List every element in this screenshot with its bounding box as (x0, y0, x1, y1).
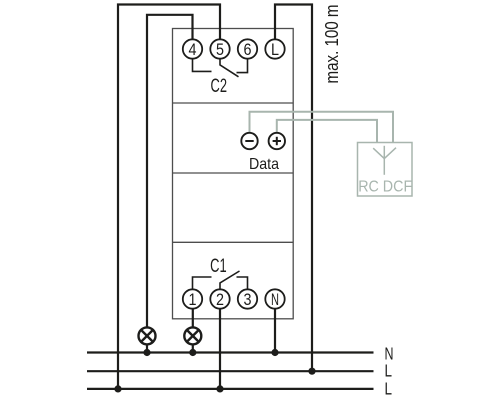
lamp L1 (circle with X) (139, 327, 156, 352)
svg-text:N: N (271, 290, 279, 309)
divider between empty section and C1 section (173, 241, 294, 243)
svg-text:C2: C2 (211, 76, 228, 97)
Data terminal minus (241, 133, 257, 149)
wire terminal N to N line (274, 309, 276, 353)
svg-text:C1: C1 (210, 256, 227, 277)
device outline box (173, 29, 294, 319)
svg-text:RC DCF: RC DCF (358, 179, 412, 196)
wire terminal 2 to bottom L line (219, 309, 221, 389)
svg-text:6: 6 (244, 40, 252, 59)
switch C1 blade from 2 (220, 271, 240, 289)
svg-text:4: 4 (189, 40, 197, 59)
svg-text:L: L (385, 378, 393, 398)
switch C2 contact from 6 (237, 59, 248, 73)
RC DCF receiver box (358, 143, 413, 197)
terminal N (265, 289, 284, 308)
junction dot lamp2/N (189, 349, 196, 356)
wire from terminal 5 to bottom L line (118, 5, 220, 389)
terminal 1 (183, 289, 202, 308)
switch C2 blade from 5 (220, 59, 239, 77)
junction dot lamp1/N (143, 349, 150, 356)
wire terminal 1 to lamp 2 (192, 309, 194, 327)
wire from terminal 4 to lamp 1 (147, 15, 193, 327)
junction dot terminal N/N line (271, 349, 278, 356)
svg-text:Data: Data (249, 156, 279, 173)
svg-text:2: 2 (216, 290, 224, 309)
gray wire from Data minus to RC DCF (250, 112, 394, 143)
switch C2 contact from 4 (193, 59, 212, 72)
switch C1 contact from 3 (237, 277, 248, 289)
junction dot wire5/bottom L line (114, 385, 121, 392)
terminal 3 (238, 289, 257, 308)
antenna symbol (373, 146, 396, 175)
divider between Data section and empty section (173, 172, 294, 174)
svg-text:5: 5 (216, 40, 224, 59)
terminal 5 (210, 39, 229, 58)
junction dot L wire/middle L line (308, 368, 315, 375)
mains line N (87, 351, 374, 353)
terminal 4 (183, 39, 202, 58)
wire from terminal L to middle L line (275, 5, 312, 372)
svg-text:3: 3 (244, 290, 252, 309)
terminal L (265, 39, 284, 58)
terminal 2 (210, 289, 229, 308)
mains line L (bottom) (87, 388, 374, 390)
svg-text:L: L (271, 40, 279, 59)
divider between C2 section and Data section (173, 102, 294, 104)
terminal 6 (238, 39, 257, 58)
gray wire from Data plus to RC DCF (277, 120, 377, 143)
junction dot terminal2/bottom L line (216, 385, 223, 392)
Data terminal plus (269, 133, 285, 149)
svg-text:max. 100 m: max. 100 m (322, 5, 342, 84)
switch C1 contact from 1 (193, 277, 212, 289)
mains line L (middle) (87, 370, 374, 372)
lamp L2 (circle with X) (184, 327, 201, 352)
svg-text:1: 1 (189, 290, 197, 309)
